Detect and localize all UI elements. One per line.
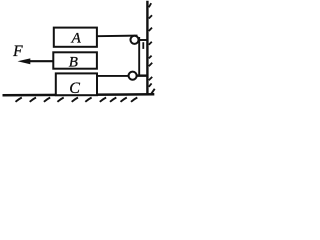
block C <box>56 73 97 95</box>
pulley bottom <box>129 72 137 80</box>
svg-text:B: B <box>69 55 78 71</box>
small tick under top hook <box>142 42 144 49</box>
svg-text:C: C <box>69 80 80 97</box>
wire string from C to bottom pulley <box>97 75 148 77</box>
wall <box>146 1 148 96</box>
wall hatching <box>149 3 152 87</box>
svg-text:F: F <box>12 43 23 60</box>
force F arrowhead <box>18 58 31 64</box>
svg-text:A: A <box>71 30 82 46</box>
pulley top <box>130 36 138 44</box>
ground <box>3 94 155 95</box>
hook bottom pulley to wall <box>136 74 147 76</box>
hook top pulley to wall <box>138 39 148 41</box>
block A <box>54 28 97 47</box>
wire string from A to top pulley <box>97 35 138 38</box>
force F arrow shaft <box>24 60 54 62</box>
ground hatching <box>16 98 138 102</box>
wire string between pulleys <box>138 37 140 76</box>
block B <box>53 52 97 68</box>
ground end flick <box>151 89 154 94</box>
